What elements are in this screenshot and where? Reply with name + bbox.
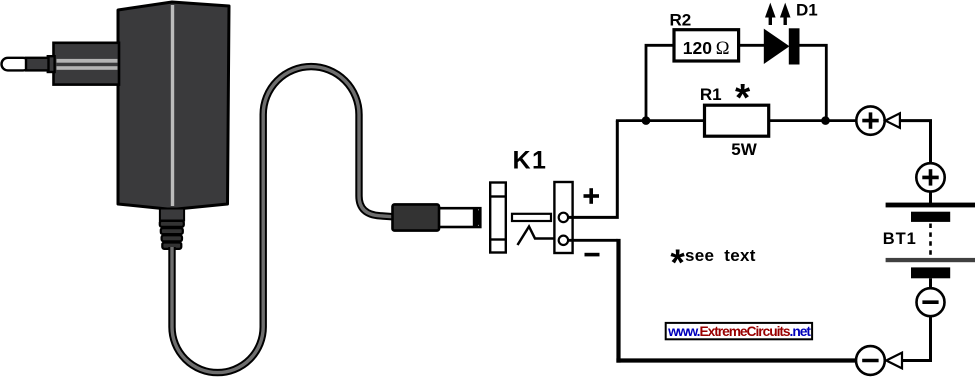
terminal minus battery bbox=[917, 288, 945, 316]
mains plug prong bbox=[2, 56, 55, 72]
plug arrow bottom bbox=[886, 353, 902, 369]
battery BT1 dashed link bbox=[929, 224, 932, 257]
svg-text:D1: D1 bbox=[796, 1, 818, 20]
cable bbox=[172, 67, 394, 373]
connector K1 switch lever bbox=[518, 227, 560, 246]
connector K1 label bbox=[513, 147, 548, 175]
battery BT1 label bbox=[883, 230, 917, 248]
svg-text:R1: R1 bbox=[700, 85, 722, 104]
mains plug base bbox=[54, 43, 120, 85]
connector K1 pin 1 bbox=[559, 213, 568, 222]
wire minus from K1 bbox=[568, 239, 618, 363]
terminal plus battery bbox=[916, 163, 944, 191]
svg-text:5W: 5W bbox=[731, 140, 757, 159]
asterisk by R1 bbox=[735, 77, 751, 120]
connector K1 jack sleeve bbox=[490, 183, 506, 253]
wire top rail bbox=[616, 119, 856, 122]
node junction right bbox=[821, 116, 830, 125]
plus polarity sign bbox=[584, 188, 600, 204]
wire battery to minus terminal bbox=[929, 278, 932, 288]
LED D1 label bbox=[796, 1, 818, 20]
wire plus from K1 bbox=[568, 121, 617, 218]
resistor R2 label bbox=[670, 10, 692, 29]
wire bottom rail bbox=[616, 358, 856, 362]
battery BT1 cell 1 bbox=[886, 203, 975, 222]
connector K1 center pin bbox=[512, 214, 551, 221]
node junction left bbox=[642, 116, 651, 125]
LED D1 light arrow 1 bbox=[765, 3, 776, 25]
plug arrow top bbox=[885, 113, 900, 128]
svg-text:*: * bbox=[735, 77, 751, 120]
resistor R1 bbox=[705, 105, 769, 136]
DC barrel plug bbox=[393, 204, 482, 230]
minus polarity sign bbox=[585, 253, 600, 257]
wire R2 to D1 bbox=[739, 44, 764, 47]
terminal plus top bbox=[856, 106, 884, 134]
resistor R1 power label bbox=[731, 140, 757, 159]
asterisk see text bbox=[670, 242, 755, 283]
LED D1 light arrow 2 bbox=[780, 3, 791, 25]
watermark box bbox=[666, 323, 812, 339]
battery BT1 cell 2 bbox=[886, 258, 975, 278]
svg-text:R2: R2 bbox=[670, 10, 692, 29]
wire R2 branch left bbox=[646, 45, 674, 120]
LED D1 bbox=[764, 28, 800, 64]
wire to battery bbox=[929, 192, 932, 203]
svg-text:Ω: Ω bbox=[716, 39, 730, 59]
connector K1 pin 2 bbox=[559, 236, 568, 245]
wire D1 to rail bbox=[800, 45, 827, 120]
svg-text:120: 120 bbox=[683, 38, 712, 58]
svg-text:see text: see text bbox=[685, 246, 756, 265]
svg-text:www.ExtremeCircuits.net: www.ExtremeCircuits.net bbox=[667, 324, 811, 339]
wire bottom right bbox=[902, 316, 931, 360]
wall adapter body bbox=[118, 2, 229, 210]
terminal minus bottom bbox=[856, 346, 885, 375]
resistor R2 bbox=[674, 30, 739, 61]
connector K1 terminal block bbox=[554, 182, 572, 253]
strain relief bbox=[160, 209, 184, 249]
resistor R1 label bbox=[700, 85, 722, 104]
svg-text:BT1: BT1 bbox=[883, 230, 917, 248]
wire top right bbox=[900, 121, 931, 164]
svg-text:K1: K1 bbox=[513, 147, 548, 175]
svg-text:*: * bbox=[670, 242, 685, 283]
